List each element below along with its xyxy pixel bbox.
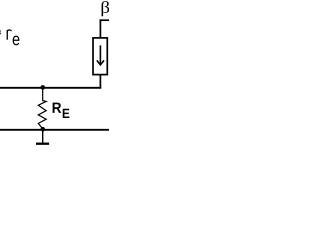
wire top right horizontal: [100, 19, 109, 21]
current source label beta: [102, 1, 110, 16]
resistor label R: [53, 103, 62, 113]
current source box: [93, 38, 107, 75]
node junction dot top: [40, 85, 45, 90]
resistor label subscript E: [63, 109, 70, 118]
resistor RE zigzag: [38, 88, 46, 129]
label subscript e: [13, 36, 20, 46]
ground stub: [42, 130, 44, 143]
label fragment s (cut off at left edge): [0, 31, 2, 35]
wire top lead into current source: [99, 19, 101, 38]
wire top rail: [0, 87, 101, 89]
current source arrow: [97, 45, 104, 65]
label r: [7, 30, 11, 40]
ground bar: [36, 143, 49, 145]
node junction dot bottom: [41, 127, 46, 132]
wire current source bottom lead: [99, 75, 101, 89]
wire bottom rail: [0, 129, 109, 131]
